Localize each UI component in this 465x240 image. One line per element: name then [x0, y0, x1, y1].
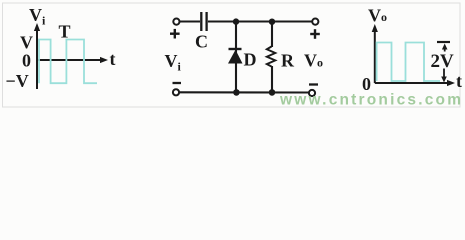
plus sign top-left — [170, 29, 180, 39]
capacitor C — [201, 12, 206, 31]
junction node top of resistor — [269, 19, 275, 25]
junction node bottom of resistor — [269, 89, 276, 96]
svg-text:0: 0 — [22, 51, 31, 71]
svg-text:V: V — [20, 33, 33, 53]
svg-text:t: t — [456, 71, 462, 91]
svg-text:−V: −V — [6, 71, 29, 91]
input square waveform — [39, 40, 97, 84]
wire capacitor to top-right terminal — [208, 20, 312, 22]
terminal top-right — [312, 19, 318, 25]
minus sign bottom-left — [173, 82, 182, 84]
junction node top of diode — [233, 18, 239, 24]
dimension marker upper arrow — [442, 44, 448, 52]
left graph vertical axis — [34, 23, 40, 89]
terminal bottom-right — [309, 90, 315, 96]
dimension marker top bar — [437, 41, 450, 43]
wire diode branch — [235, 22, 237, 93]
plus sign top-right — [310, 29, 320, 39]
right graph horizontal axis (t) — [375, 80, 455, 86]
terminal bottom-left — [173, 89, 179, 95]
svg-text:T: T — [59, 22, 71, 42]
minus sign bottom-right — [309, 83, 318, 85]
wire top-left to capacitor — [180, 20, 200, 22]
svg-text:C: C — [195, 32, 208, 52]
wire resistor branch — [271, 22, 273, 47]
terminal top-left — [173, 19, 179, 25]
junction node bottom of diode — [233, 89, 240, 96]
svg-text:t: t — [110, 49, 116, 69]
diode D (cathode bar + triangle pointing up) — [228, 49, 243, 64]
svg-text:2V: 2V — [431, 51, 455, 72]
border frame — [3, 3, 461, 107]
wire bottom — [179, 91, 309, 93]
left graph horizontal axis (t) — [37, 57, 108, 63]
svg-text:R: R — [281, 51, 295, 71]
svg-text:D: D — [244, 50, 257, 70]
right graph vertical axis — [372, 24, 378, 83]
wire resistor branch lower — [271, 66, 273, 92]
resistor R zigzag — [267, 47, 276, 67]
output square waveform — [377, 43, 440, 82]
dimension marker lower arrow — [441, 69, 447, 83]
